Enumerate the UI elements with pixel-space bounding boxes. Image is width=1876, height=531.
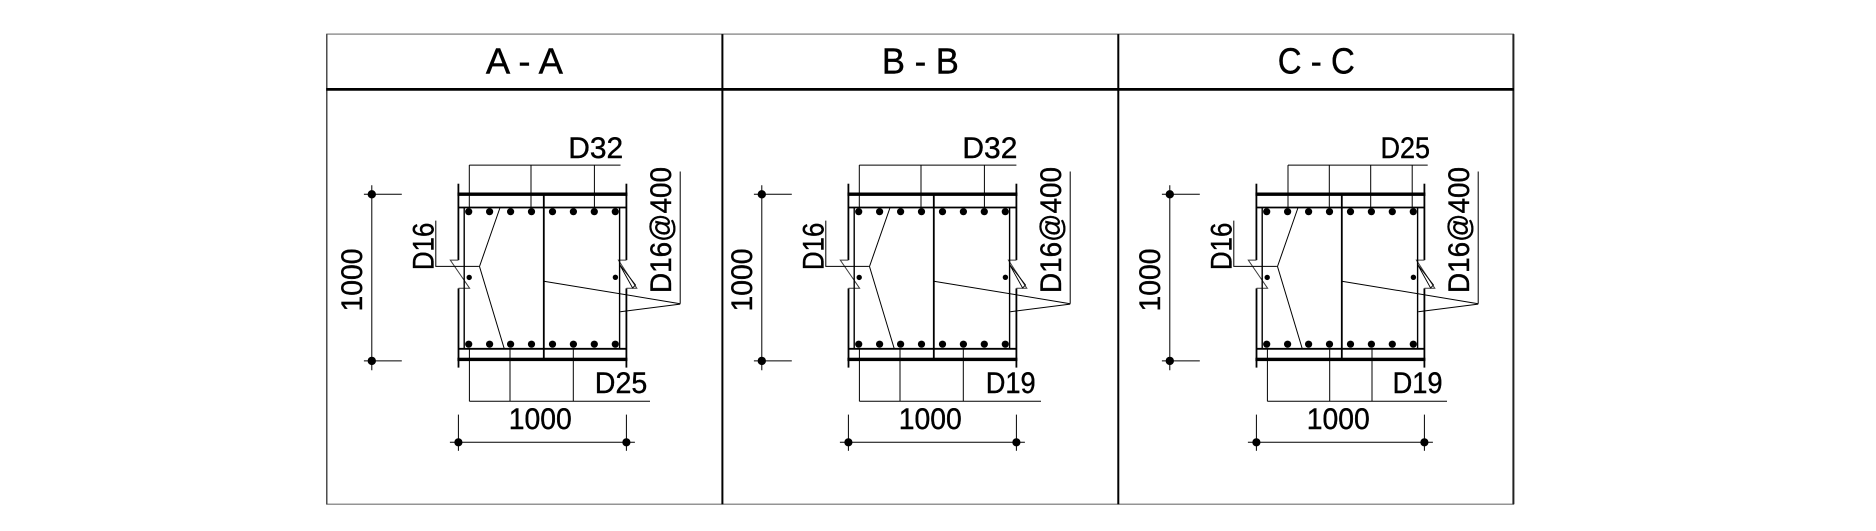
table right border <box>1512 34 1514 504</box>
arrowhead at right stirrup leg <box>620 265 636 289</box>
svg-text:B - B: B - B <box>882 41 959 82</box>
section A-A: right edge Z-break <box>618 260 636 288</box>
column divider 1 <box>721 34 723 504</box>
dimension 1000 (width) <box>1248 415 1433 451</box>
section C-C: bottom rebar dots <box>1263 341 1417 348</box>
svg-text:1000: 1000 <box>336 249 369 312</box>
dimension 1000 (height) <box>754 185 792 370</box>
section B-B: middle stirrup leg <box>933 194 935 359</box>
column divider 2 <box>1117 34 1119 504</box>
table left border <box>326 34 328 504</box>
stirrup label reference line <box>1069 172 1071 304</box>
dimension 1000 (height) <box>364 185 402 370</box>
leader to middle stirrup leg <box>1342 281 1478 304</box>
leader to right stirrup leg <box>1418 304 1478 312</box>
section C-C: top rebar dots <box>1263 208 1417 215</box>
header separator line <box>326 88 1514 91</box>
stirrup hook polyline <box>480 208 505 349</box>
leader for D19 bottom bars <box>1267 349 1447 402</box>
leader from D16 label to stirrup node <box>436 221 479 267</box>
section A-A: right edge <box>625 184 627 260</box>
leader to right stirrup leg <box>1010 304 1070 312</box>
svg-text:D25: D25 <box>1381 132 1431 165</box>
section A-A: bottom rebar dots <box>465 341 619 348</box>
section A-A: middle stirrup leg <box>543 194 545 359</box>
leader for D32 top bars <box>469 165 620 207</box>
svg-text:D19: D19 <box>1393 367 1443 400</box>
leader to middle stirrup leg <box>544 281 680 304</box>
section C-C: bottom rebar line <box>1256 348 1424 350</box>
dimension 1000 (height) <box>1162 185 1200 370</box>
section A-A: left edge <box>457 184 459 260</box>
svg-text:1000: 1000 <box>1307 403 1370 436</box>
leader for D25 bottom bars <box>469 349 650 402</box>
section A-A: top flange bar <box>457 193 627 196</box>
stirrup hook polyline <box>1278 208 1303 349</box>
leader from D16 label to stirrup node <box>826 221 869 267</box>
section B-B: bottom rebar dots <box>855 341 1009 348</box>
leader to right stirrup leg <box>620 304 680 312</box>
section C-C: right side bar dot <box>1411 275 1416 280</box>
leader to middle stirrup leg <box>934 281 1070 304</box>
leader for D32 top bars <box>859 165 1016 207</box>
section A-A: right side bar dot <box>613 275 618 280</box>
section B-B: left edge <box>847 184 849 260</box>
leader for D19 bottom bars <box>859 349 1041 402</box>
section B-B: left stirrup leg <box>853 208 855 349</box>
leader from D16 label to stirrup node <box>1234 221 1277 267</box>
section A-A: left side bar dot <box>467 275 472 280</box>
section A-A: top rebar line <box>458 207 626 209</box>
svg-text:1000: 1000 <box>1134 249 1167 312</box>
svg-text:D32: D32 <box>962 132 1017 165</box>
section C-C: right edge Z-break <box>1416 260 1434 288</box>
section A-A: bottom rebar line <box>458 348 626 350</box>
arrowhead at right stirrup leg <box>1010 265 1026 289</box>
section B-B: top rebar dots <box>855 208 1009 215</box>
section B-B: right stirrup leg <box>1009 208 1011 349</box>
svg-text:D25: D25 <box>595 367 648 400</box>
section C-C: left edge <box>1255 184 1257 260</box>
table outer frame <box>327 34 1514 504</box>
section A-A: top rebar dots <box>465 208 619 215</box>
section C-C: middle stirrup leg <box>1341 194 1343 359</box>
arrowhead at right stirrup leg <box>1418 265 1434 289</box>
svg-text:A - A: A - A <box>486 41 563 82</box>
section A-A: right stirrup leg <box>619 208 621 349</box>
stirrup label reference line <box>1477 172 1479 304</box>
section C-C: left side bar dot <box>1265 275 1270 280</box>
section B-B: right edge Z-break <box>1008 260 1026 288</box>
section B-B: top flange bar <box>847 193 1017 196</box>
section A-A: left stirrup leg <box>463 208 465 349</box>
dimension 1000 (width) <box>450 415 635 451</box>
section C-C: left edge Z-break <box>1248 260 1267 288</box>
svg-text:D19: D19 <box>986 367 1036 400</box>
svg-text:D16@400: D16@400 <box>645 167 678 293</box>
section B-B: bottom rebar line <box>848 348 1016 350</box>
stirrup hook polyline <box>870 208 895 349</box>
dimension 1000 (width) <box>840 415 1025 451</box>
section A-A: bottom flange bar <box>457 358 627 361</box>
section B-B: right side bar dot <box>1003 275 1008 280</box>
svg-text:D16@400: D16@400 <box>1035 167 1068 293</box>
section C-C: right stirrup leg <box>1417 208 1419 349</box>
svg-text:C - C: C - C <box>1278 41 1355 82</box>
section C-C: left stirrup leg <box>1261 208 1263 349</box>
section B-B: bottom flange bar <box>847 358 1017 361</box>
leader for D25 top bars <box>1288 165 1428 207</box>
svg-text:1000: 1000 <box>899 403 962 436</box>
svg-text:D32: D32 <box>568 132 623 165</box>
section C-C: top flange bar <box>1255 193 1425 196</box>
svg-text:D16@400: D16@400 <box>1443 167 1476 293</box>
stirrup label reference line <box>679 172 681 304</box>
section B-B: right edge <box>1015 184 1017 260</box>
section C-C: right edge <box>1423 184 1425 260</box>
section C-C: bottom flange bar <box>1255 358 1425 361</box>
svg-text:1000: 1000 <box>509 403 572 436</box>
section A-A: left edge Z-break <box>450 260 469 288</box>
section B-B: left edge Z-break <box>840 260 859 288</box>
svg-text:1000: 1000 <box>726 249 759 312</box>
section C-C: top rebar line <box>1256 207 1424 209</box>
section B-B: left side bar dot <box>857 275 862 280</box>
section B-B: top rebar line <box>848 207 1016 209</box>
